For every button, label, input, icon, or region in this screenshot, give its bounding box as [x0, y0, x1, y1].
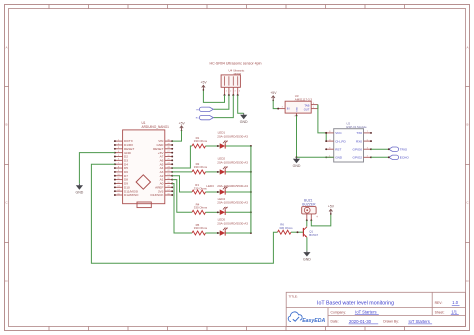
- label R1 value: [194, 136, 208, 143]
- esp-01 module U2 body: [334, 129, 364, 162]
- wire LED cathode bus: [250, 146, 252, 233]
- net port TRIG (right): [388, 147, 399, 151]
- arduino nano U1 body: [123, 130, 165, 204]
- resistor R3 330 Ohms: [192, 190, 206, 194]
- svg-text:330 Ohms: 330 Ohms: [194, 186, 208, 190]
- label LED2 value: [217, 157, 248, 165]
- title block: [286, 292, 465, 326]
- svg-text:ECHO: ECHO: [400, 156, 410, 160]
- arduino nano U1 labels: [142, 121, 170, 129]
- svg-text:B: B: [5, 123, 7, 127]
- svg-text:ARDUINO_NANO1: ARDUINO_NANO1: [142, 125, 170, 129]
- svg-text:RX0: RX0: [356, 139, 362, 143]
- svg-text:U4: U4: [229, 68, 233, 72]
- U3 pin numbers: [282, 103, 315, 118]
- svg-text:B: B: [466, 123, 468, 127]
- svg-text:Sheet:: Sheet:: [435, 310, 445, 314]
- ground (sensor): [240, 113, 248, 124]
- svg-text:1.0: 1.0: [452, 300, 458, 305]
- svg-text:REV:: REV:: [435, 301, 443, 305]
- label R5 value: [194, 223, 208, 230]
- transistor Q1 BC547: [303, 227, 307, 238]
- wire U2 GPIO2 to ECHO flag: [371, 156, 389, 158]
- net port TRIG (left): [199, 107, 213, 111]
- svg-text:GND: GND: [240, 120, 248, 124]
- svg-text:20A-10SURD/S530-A3: 20A-10SURD/S530-A3: [217, 184, 248, 188]
- svg-text:D12/MISO: D12/MISO: [124, 193, 139, 197]
- U2 right pins: [353, 131, 372, 159]
- wire +5V to U3 IN: [273, 100, 278, 108]
- U1 pin names: [124, 139, 164, 197]
- label LED4 value: [217, 197, 248, 205]
- wire U4 Echo to ECHO flag: [213, 95, 233, 118]
- wire U4 Trig to TRIG flag: [213, 95, 229, 109]
- wire U1 GND to ground: [79, 153, 115, 184]
- wire U3 GND down: [296, 116, 298, 158]
- svg-text:A: A: [466, 46, 468, 50]
- resistor R5 330 Ohms: [192, 231, 206, 235]
- svg-text:LED3: LED3: [206, 184, 214, 188]
- label LED5 value: [217, 218, 248, 226]
- svg-text:+5V: +5V: [201, 81, 208, 85]
- wire R6 to Q1 base: [291, 231, 303, 233]
- svg-text:2020-01-30: 2020-01-30: [349, 319, 372, 324]
- wire buzzer to +5V: [311, 214, 331, 226]
- buzzer BUZ1 labels: [302, 199, 316, 207]
- svg-text:20A-10SURD/S530-A3: 20A-10SURD/S530-A3: [217, 201, 248, 205]
- led LED3 20A-10SURD/S530-A3: [220, 187, 228, 195]
- wire U1 A0 to R5: [172, 183, 192, 233]
- svg-text:Company:: Company:: [331, 310, 347, 314]
- wire U3 TAB/OUT to ESP VCC: [318, 105, 326, 133]
- wire +5V to U1 VIN: [172, 131, 181, 142]
- svg-text:EC: EC: [196, 118, 199, 120]
- label R2 value: [194, 162, 208, 169]
- wire U1 A2 to R3: [172, 176, 192, 192]
- svg-text:OUT: OUT: [304, 107, 310, 111]
- svg-text:+5V: +5V: [328, 205, 335, 209]
- svg-text:GND: GND: [296, 107, 298, 112]
- svg-text:330 Ohms: 330 Ohms: [279, 226, 293, 230]
- svg-text:IN: IN: [287, 107, 290, 111]
- resistor R6 330 Ohms: [278, 230, 292, 234]
- power +5V (regulator): [270, 91, 277, 101]
- svg-text:TAB: TAB: [304, 103, 309, 107]
- svg-text:BUZZER: BUZZER: [302, 202, 316, 206]
- wire U1 A3 to R2: [172, 171, 192, 173]
- frame row ticks left/right: [5, 87, 470, 243]
- svg-text:TX0: TX0: [356, 131, 362, 135]
- wire U2 GPIO0 to TRIG flag: [371, 148, 389, 150]
- frame column ticks top/bottom: [49, 5, 405, 331]
- power +5V (arduino): [179, 121, 186, 131]
- wire R2 to LED2: [206, 171, 220, 173]
- power +5V (buzzer): [328, 205, 335, 215]
- U1 usb connector: [137, 202, 151, 208]
- label R3 value: [194, 183, 208, 190]
- led LED5 20A-10SURD/S530-A3: [220, 228, 228, 236]
- svg-text:D13/SCK: D13/SCK: [150, 193, 164, 197]
- svg-text:GND: GND: [293, 164, 301, 168]
- svg-text:TR: TR: [196, 109, 199, 111]
- svg-text:GND: GND: [335, 155, 343, 159]
- svg-text:Date:: Date:: [331, 320, 339, 324]
- wire Q1 emitter to ground: [306, 237, 308, 250]
- led LED2 20A-10SURD/S530-A3: [220, 167, 228, 175]
- net port ECHO (right): [388, 155, 399, 159]
- frame row letters: [5, 46, 469, 284]
- U4 pin numbers 1 2 3 4: [226, 90, 241, 92]
- svg-text:+: +: [316, 215, 318, 219]
- svg-text:RST: RST: [335, 147, 341, 151]
- wire U1 A1 to R4: [172, 180, 192, 213]
- wire LED2 cathode to bus: [226, 171, 251, 173]
- label R6 value: [279, 223, 293, 230]
- wire LED3 cathode to bus: [226, 191, 251, 193]
- wire buzzer to Q1 collector: [306, 220, 308, 226]
- svg-text:Drawn By:: Drawn By:: [383, 320, 399, 324]
- wire R5 to LED5: [206, 232, 220, 234]
- wire LED4 cathode to bus: [226, 211, 251, 213]
- label LED3 value: [206, 184, 248, 188]
- wire U4 VCC to +5V: [203, 90, 224, 103]
- resistor R1 330 Ohms: [192, 144, 206, 148]
- ground (arduino): [76, 184, 84, 195]
- svg-text:+5V: +5V: [179, 121, 186, 125]
- U1 right pins with numbers 30-16: [165, 139, 173, 196]
- wire LED5 cathode to bus: [226, 232, 251, 234]
- net port ECHO (left): [199, 115, 213, 119]
- wire R3 to LED3: [206, 191, 220, 193]
- svg-text:HC-SR04 Ultrasonic sensor 4pin: HC-SR04 Ultrasonic sensor 4pin: [210, 62, 262, 66]
- svg-text:BC547: BC547: [309, 233, 318, 237]
- wire ESP VCC to CH_PD: [325, 133, 327, 141]
- led LED4 20A-10SURD/S530-A3: [220, 207, 228, 215]
- wire R4 to LED4: [206, 211, 220, 213]
- wire U2 GND to ground net: [297, 156, 334, 158]
- easyeda logo: [288, 312, 325, 324]
- wire R1 to LED1: [206, 145, 220, 147]
- wire U1 A4 to R1: [172, 146, 192, 168]
- regulator U3 AMS1117-3.3: [277, 94, 318, 117]
- svg-text:330 Ohms: 330 Ohms: [194, 139, 208, 143]
- svg-text:330 Ohms: 330 Ohms: [194, 205, 208, 209]
- svg-text:IoT Starters: IoT Starters: [409, 319, 430, 324]
- svg-text:CH_PD: CH_PD: [335, 139, 346, 143]
- svg-text:A: A: [5, 46, 7, 50]
- wire U4 GND to ground: [238, 95, 244, 113]
- svg-text:330 Ohms: 330 Ohms: [194, 165, 208, 169]
- svg-text:VCC: VCC: [335, 131, 342, 135]
- svg-text:+5V: +5V: [270, 91, 277, 95]
- svg-text:GND: GND: [303, 258, 311, 262]
- svg-text:20A-10SURD/S530-A3: 20A-10SURD/S530-A3: [217, 160, 248, 164]
- svg-text:20A-10SURD/S530-A3: 20A-10SURD/S530-A3: [217, 134, 248, 138]
- buzzer BUZ1 body: [302, 207, 316, 222]
- svg-text:GND: GND: [76, 191, 84, 195]
- led LED1 20A-10SURD/S530-A3: [220, 141, 228, 149]
- ultrasonic sensor U4: [221, 68, 245, 96]
- ground (regulator/esp): [293, 157, 301, 168]
- U2 left pins: [325, 131, 346, 159]
- U1 left pins with numbers 1-15: [114, 139, 123, 196]
- ground (transistor): [303, 251, 311, 262]
- svg-text:330 Ohms: 330 Ohms: [194, 226, 208, 230]
- wire LED1 cathode to bus: [226, 145, 251, 147]
- svg-text:IoT Starters: IoT Starters: [355, 310, 376, 315]
- label LED1 value: [217, 131, 248, 139]
- label R4 value: [194, 202, 208, 209]
- resistor R2 330 Ohms: [192, 170, 206, 174]
- svg-text:GPIO2: GPIO2: [353, 155, 363, 159]
- svg-text:TRIG: TRIG: [400, 147, 408, 151]
- esp-01 module U2 labels: [346, 122, 367, 129]
- U1 logo diamond: [136, 175, 150, 189]
- svg-text:TITLE:: TITLE:: [289, 295, 298, 299]
- svg-text:GPIO0: GPIO0: [353, 147, 363, 151]
- svg-text:IoT Based water level monitori: IoT Based water level monitoring: [317, 301, 394, 307]
- resistor R4 330 Ohms: [192, 210, 206, 214]
- svg-text:EasyEDA: EasyEDA: [302, 318, 325, 324]
- wire U1 D4 to R6 (bottom route): [91, 164, 277, 263]
- power +5V (sensor): [201, 81, 208, 91]
- svg-text:20A-10SURD/S530-A3: 20A-10SURD/S530-A3: [217, 221, 248, 225]
- svg-text:1/1: 1/1: [451, 310, 457, 315]
- label Q1 BC547: [309, 230, 318, 238]
